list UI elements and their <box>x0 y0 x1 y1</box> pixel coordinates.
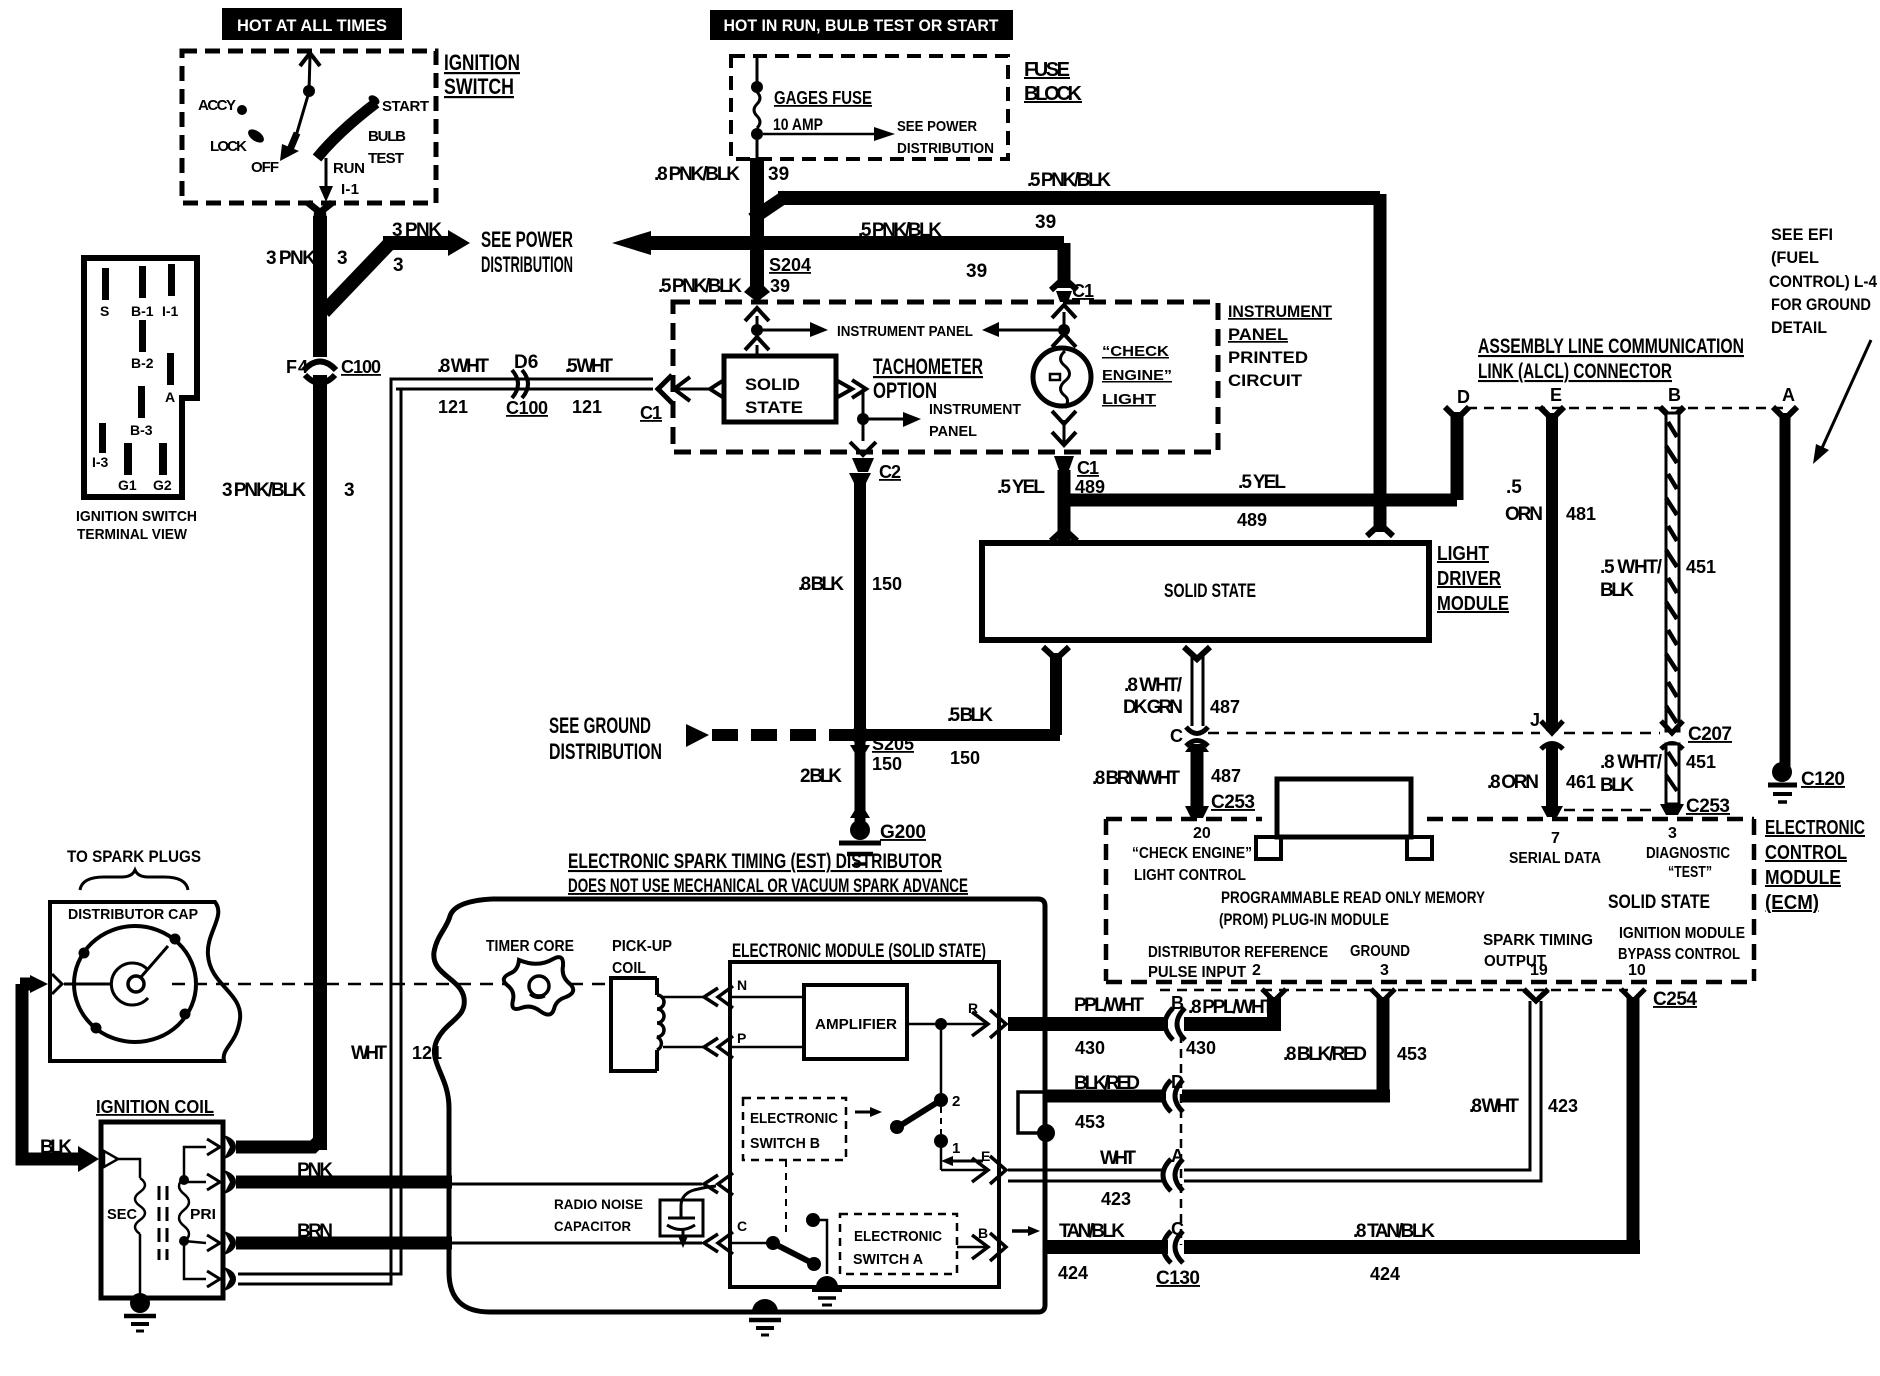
svg-text:TEST: TEST <box>368 150 404 167</box>
svg-text:39: 39 <box>966 261 987 282</box>
svg-text:.8 WHT/: .8 WHT/ <box>1600 752 1663 773</box>
svg-text:LIGHT: LIGHT <box>1102 391 1156 408</box>
label PROGRAMMABLE READ ONLY MEMORY (PROM) PLUG-IN MODULE <box>1219 888 1486 929</box>
svg-text:CONTROL: CONTROL <box>1765 842 1847 864</box>
svg-text:C130: C130 <box>1156 1268 1200 1289</box>
ECM dashed box <box>1106 819 1754 982</box>
svg-text:R: R <box>968 1000 978 1016</box>
svg-text:SWITCH B: SWITCH B <box>750 1135 820 1152</box>
wire WHT 121 hollow from tach to coil terminal 4 <box>238 379 652 1284</box>
wire amplifier to R output <box>907 1000 1006 1038</box>
svg-text:2: 2 <box>952 1093 960 1110</box>
connector D6 C100 <box>512 370 530 398</box>
svg-text:“CHECK: “CHECK <box>1102 343 1169 360</box>
coil terminal 2 <box>207 1170 236 1194</box>
label SEE GROUND DISTRIBUTION <box>549 713 662 764</box>
svg-text:.8 PNK/BLK: .8 PNK/BLK <box>654 164 740 185</box>
svg-text:IGNITION COIL: IGNITION COIL <box>96 1097 214 1117</box>
svg-text:DISTRIBUTOR REFERENCE: DISTRIBUTOR REFERENCE <box>1148 944 1328 961</box>
ground on housing bottom <box>749 1299 781 1335</box>
header HOT IN RUN BULB TEST OR START <box>710 10 1013 40</box>
dashed rotor axis line <box>172 983 508 986</box>
svg-text:10: 10 <box>1628 962 1646 979</box>
pin 2 connector <box>1262 989 1286 1001</box>
svg-text:B: B <box>1171 993 1184 1013</box>
check engine light bulb <box>1033 305 1091 470</box>
label RADIO NOISE CAPACITOR <box>554 1196 643 1234</box>
dashed link switch B to switch A <box>785 1160 787 1236</box>
wire PPL/WHT 430 distributor reference <box>1008 997 1281 1031</box>
svg-text:.5 PNK/BLK: .5 PNK/BLK <box>858 220 942 241</box>
ignition switch contacts and lever <box>198 53 429 202</box>
svg-text:424: 424 <box>1370 1264 1400 1284</box>
svg-text:AMPLIFIER: AMPLIFIER <box>815 1016 897 1033</box>
svg-text:FUSE: FUSE <box>1024 59 1070 81</box>
connector C at C207 row <box>1186 727 1208 746</box>
svg-text:IGNITION SWITCH: IGNITION SWITCH <box>76 508 197 525</box>
svg-text:SERIAL DATA: SERIAL DATA <box>1509 850 1601 867</box>
svg-text:39: 39 <box>768 164 789 185</box>
svg-text:INSTRUMENT PANEL: INSTRUMENT PANEL <box>837 323 973 340</box>
ignition switch terminal view connector body <box>84 258 197 497</box>
svg-text:.5 YEL: .5 YEL <box>997 477 1045 498</box>
svg-text:LOCK: LOCK <box>210 138 247 155</box>
svg-text:CONTROL) L-4: CONTROL) L-4 <box>1769 272 1877 291</box>
svg-text:OPTION: OPTION <box>873 378 937 403</box>
svg-text:OFF: OFF <box>251 159 279 176</box>
wire .8 PNK/BLK from fuse block down <box>744 140 770 302</box>
svg-text:ASSEMBLY LINE COMMUNICATION: ASSEMBLY LINE COMMUNICATION <box>1478 335 1744 358</box>
pin 19 connector <box>1524 989 1548 1001</box>
tachometer solid state box <box>724 356 836 422</box>
svg-text:TO SPARK PLUGS: TO SPARK PLUGS <box>67 847 201 866</box>
svg-text:PULSE INPUT: PULSE INPUT <box>1148 964 1246 981</box>
note SEE EFI FUEL CONTROL L-4 FOR GROUND DETAIL <box>1769 225 1877 464</box>
svg-text:487: 487 <box>1210 697 1240 717</box>
label IGNITION SWITCH TERMINAL VIEW <box>76 508 197 543</box>
wire .5 PNK/BLK lower branch to instrument panel <box>648 243 1077 302</box>
wire .5 WHT/BLK hatched from ALCL B <box>1666 413 1679 731</box>
wire .5 PNK/BLK upper branch to ECM side <box>752 194 1393 536</box>
svg-text:C253: C253 <box>1211 792 1255 813</box>
svg-text:(FUEL: (FUEL <box>1771 248 1819 267</box>
svg-text:STATE: STATE <box>745 398 803 417</box>
switch lever wire <box>296 92 309 136</box>
connector at cap left for BLK wire <box>52 974 62 994</box>
svg-text:150: 150 <box>872 754 902 774</box>
EST distributor housing outline <box>434 899 1045 1312</box>
svg-text:INSTRUMENT: INSTRUMENT <box>1228 302 1333 321</box>
svg-text:461: 461 <box>1566 772 1596 792</box>
svg-text:G1: G1 <box>118 477 137 493</box>
svg-text:PRI: PRI <box>190 1206 216 1223</box>
connector into tachometer solid state <box>745 337 769 357</box>
svg-text:C120: C120 <box>1801 769 1845 790</box>
svg-text:I-1: I-1 <box>341 181 359 198</box>
svg-text:TAN/BLK: TAN/BLK <box>1059 1221 1125 1242</box>
svg-text:.8 PPL/WHT: .8 PPL/WHT <box>1188 997 1274 1018</box>
svg-text:S: S <box>100 303 109 319</box>
label INSTRUMENT PANEL second <box>929 401 1021 440</box>
svg-text:.8 BRN/WHT: .8 BRN/WHT <box>1092 768 1180 789</box>
wire stub from BLK/RED to distributor housing ground <box>1018 1092 1055 1142</box>
svg-text:430: 430 <box>1075 1038 1105 1058</box>
svg-text:ELECTRONIC SPARK TIMING (EST): ELECTRONIC SPARK TIMING (EST) DISTRIBUTO… <box>568 850 942 873</box>
svg-text:C100: C100 <box>341 357 381 377</box>
svg-text:F4: F4 <box>286 357 308 377</box>
wire .5 BLK from module ground down to S205 <box>860 647 1069 735</box>
svg-text:SEE GROUND: SEE GROUND <box>549 713 651 738</box>
svg-text:PRINTED: PRINTED <box>1228 348 1308 367</box>
pin 10 connector <box>1621 989 1645 1001</box>
electronic switch B contacts <box>890 1024 986 1170</box>
coil internals <box>107 1147 216 1296</box>
svg-text:BLOCK: BLOCK <box>1024 83 1083 105</box>
wire tach to C1 left <box>658 375 724 403</box>
connector C130 D <box>1163 1080 1183 1112</box>
svg-text:G200: G200 <box>880 822 926 843</box>
svg-text:INSTRUMENT: INSTRUMENT <box>929 401 1021 418</box>
svg-text:ACCY: ACCY <box>198 97 236 114</box>
svg-text:TIMER CORE: TIMER CORE <box>486 938 574 955</box>
svg-text:BLK/RED: BLK/RED <box>1074 1073 1140 1094</box>
svg-text:ELECTRONIC: ELECTRONIC <box>1765 817 1865 839</box>
svg-text:3: 3 <box>1380 962 1389 979</box>
wire S205 to G200 <box>850 741 870 822</box>
svg-text:TACHOMETER: TACHOMETER <box>873 354 983 379</box>
svg-text:.5 WHT/: .5 WHT/ <box>1600 557 1663 578</box>
svg-text:SEC: SEC <box>107 1206 137 1223</box>
wire .8 BLK from C2 down to S205 <box>849 473 871 735</box>
wire from coil terminal 1 up to ignition switch wire <box>236 1140 320 1147</box>
svg-text:I-3: I-3 <box>92 454 109 470</box>
svg-text:150: 150 <box>950 748 980 768</box>
bulb test arc <box>317 103 376 158</box>
svg-text:.5 WHT: .5 WHT <box>565 356 613 377</box>
svg-text:PANEL: PANEL <box>1228 325 1288 344</box>
ALCL dashed pin line <box>1467 407 1784 410</box>
wire to SEE GROUND DISTRIBUTION dashed heavy <box>686 724 854 747</box>
module input C and switch A lever <box>704 1213 827 1274</box>
arrow direction on TAN/BLK <box>1012 1226 1040 1236</box>
svg-text:DIAGNOSTIC: DIAGNOSTIC <box>1646 845 1730 862</box>
coil terminal 1 <box>207 1135 236 1159</box>
svg-text:3 PNK: 3 PNK <box>266 248 316 269</box>
svg-text:IGNITION: IGNITION <box>444 50 520 75</box>
wire .5 ORN from ALCL E <box>1546 413 1558 731</box>
module output B <box>957 1225 1006 1261</box>
svg-text:.8 TAN/BLK: .8 TAN/BLK <box>1353 1221 1435 1242</box>
label SEE POWER DISTRIBUTION left <box>481 227 573 277</box>
ECM pin 7 SERIAL DATA <box>1509 830 1601 867</box>
svg-text:J: J <box>1530 710 1540 730</box>
svg-text:453: 453 <box>1075 1112 1105 1132</box>
svg-text:G2: G2 <box>153 477 172 493</box>
connector row C254 dashed <box>1160 989 1628 992</box>
svg-text:DISTRIBUTOR CAP: DISTRIBUTOR CAP <box>68 906 198 923</box>
svg-text:D: D <box>1457 387 1470 407</box>
svg-text:SOLID: SOLID <box>745 375 800 394</box>
svg-text:HOT AT ALL TIMES: HOT AT ALL TIMES <box>237 16 387 35</box>
svg-text:BRN: BRN <box>297 1221 333 1242</box>
svg-text:10 AMP: 10 AMP <box>773 115 823 134</box>
electronic switch A dashed box <box>840 1214 957 1274</box>
svg-text:SEE POWER: SEE POWER <box>897 118 977 135</box>
svg-text:C253: C253 <box>1686 796 1730 817</box>
svg-text:19: 19 <box>1530 962 1548 979</box>
svg-text:D6: D6 <box>514 352 538 373</box>
svg-text:SEE POWER: SEE POWER <box>481 227 573 252</box>
svg-text:C: C <box>1170 726 1183 746</box>
ignition coil box <box>101 1122 223 1298</box>
svg-text:C1: C1 <box>640 403 662 423</box>
svg-text:DISTRIBUTION: DISTRIBUTION <box>549 739 662 764</box>
svg-text:LINK (ALCL) CONNECTOR: LINK (ALCL) CONNECTOR <box>1478 360 1672 383</box>
pick-up coil <box>611 978 706 1071</box>
svg-text:B-1: B-1 <box>131 303 154 319</box>
ground C120 <box>1768 762 1797 802</box>
svg-text:ELECTRONIC MODULE (SOLID STATE: ELECTRONIC MODULE (SOLID STATE) <box>732 941 986 962</box>
svg-text:FOR GROUND: FOR GROUND <box>1771 295 1871 314</box>
svg-text:.5 YEL: .5 YEL <box>1238 472 1286 493</box>
svg-text:SWITCH: SWITCH <box>444 74 514 99</box>
svg-text:.5 PNK/BLK: .5 PNK/BLK <box>1027 170 1111 191</box>
svg-text:PNK: PNK <box>297 1160 333 1181</box>
svg-text:PROGRAMMABLE READ ONLY MEMORY: PROGRAMMABLE READ ONLY MEMORY <box>1221 888 1486 907</box>
svg-text:C2: C2 <box>879 462 901 482</box>
svg-text:C254: C254 <box>1653 989 1697 1010</box>
svg-text:.5 BLK: .5 BLK <box>947 705 993 726</box>
svg-text:SPARK TIMING: SPARK TIMING <box>1483 932 1593 949</box>
svg-text:“CHECK ENGINE”: “CHECK ENGINE” <box>1132 845 1252 862</box>
svg-text:DOES NOT USE MECHANICAL OR VAC: DOES NOT USE MECHANICAL OR VACUUM SPARK … <box>568 876 968 897</box>
svg-text:2 BLK: 2 BLK <box>800 766 842 787</box>
fuse block dashed box <box>731 56 1008 159</box>
svg-text:.8 BLK/RED: .8 BLK/RED <box>1283 1044 1367 1065</box>
svg-text:GAGES FUSE: GAGES FUSE <box>774 88 872 108</box>
radio noise capacitor <box>660 1186 716 1248</box>
svg-text:ENGINE”: ENGINE” <box>1102 367 1172 384</box>
svg-text:BYPASS CONTROL: BYPASS CONTROL <box>1618 946 1740 963</box>
svg-text:COIL: COIL <box>612 960 646 977</box>
label ELECTRONIC CONTROL MODULE (ECM) <box>1765 817 1865 914</box>
svg-text:C100: C100 <box>506 398 548 418</box>
module input P <box>704 1030 804 1058</box>
svg-text:2: 2 <box>1252 962 1261 979</box>
svg-text:BULB: BULB <box>368 128 406 145</box>
svg-text:GROUND: GROUND <box>1350 943 1410 960</box>
svg-text:B: B <box>978 1225 988 1241</box>
wire BLK/RED 453 ground loop <box>1046 997 1390 1102</box>
arrow from right pointing left to SEE POWER DISTRIBUTION <box>612 231 651 255</box>
connector F4 C100 on main wire <box>304 357 336 383</box>
label IGNITION SWITCH <box>444 50 520 99</box>
svg-text:B-2: B-2 <box>131 355 154 371</box>
svg-text:424: 424 <box>1058 1263 1088 1283</box>
svg-text:423: 423 <box>1101 1189 1131 1209</box>
svg-text:.8 ORN: .8 ORN <box>1487 772 1539 793</box>
ground G200 <box>839 820 881 864</box>
header HOT AT ALL TIMES <box>222 8 402 40</box>
ignition switch dashed box <box>182 51 436 203</box>
svg-text:DRIVER: DRIVER <box>1437 568 1501 590</box>
svg-text:C1: C1 <box>1072 281 1094 301</box>
svg-text:SOLID STATE: SOLID STATE <box>1608 892 1710 913</box>
svg-text:S205: S205 <box>872 734 914 754</box>
wire .8 ORN to C253 <box>1541 746 1563 817</box>
svg-text:.8 WHT: .8 WHT <box>437 356 489 377</box>
wire .8 WHT/DK GRN hollow from module output <box>1184 647 1210 726</box>
distributor cap box <box>50 902 240 1061</box>
svg-text:PPL/WHT: PPL/WHT <box>1074 995 1144 1016</box>
wire TAN/BLK 424 bypass <box>1046 997 1640 1254</box>
label CHECK ENGINE LIGHT <box>1102 343 1172 408</box>
svg-text:1: 1 <box>952 1140 960 1157</box>
wire .8 WHT / .5 WHT hollow horizontal <box>396 379 653 389</box>
svg-text:B: B <box>1668 385 1681 405</box>
label ELECTRONIC SPARK TIMING (EST) DISTRIBUTOR <box>568 850 968 897</box>
svg-text:C207: C207 <box>1688 724 1732 745</box>
svg-text:SOLID STATE: SOLID STATE <box>1164 581 1256 602</box>
svg-text:423: 423 <box>1548 1096 1578 1116</box>
svg-text:121: 121 <box>572 397 602 417</box>
label INSTRUMENT PANEL PRINTED CIRCUIT <box>1228 302 1333 390</box>
module input N <box>704 977 804 1008</box>
ALCL pin B connector <box>1660 407 1684 419</box>
wire C2 exit <box>850 419 876 472</box>
ECM pin row labels <box>1148 925 1745 981</box>
node instrument panel feed left <box>745 308 828 337</box>
svg-text:P: P <box>737 1030 746 1046</box>
ground below coil <box>124 1293 156 1331</box>
ALCL pin E connector <box>1540 407 1564 419</box>
svg-text:S204: S204 <box>769 255 811 275</box>
ground inside module <box>812 1276 842 1305</box>
svg-text:WHT: WHT <box>1100 1148 1136 1169</box>
svg-text:ELECTRONIC: ELECTRONIC <box>854 1228 942 1245</box>
connector C207 on WHT/BLK wire <box>1661 721 1683 749</box>
PROM plug-in module <box>1256 779 1432 859</box>
svg-text:20: 20 <box>1193 825 1211 842</box>
svg-text:.8 BLK: .8 BLK <box>798 574 844 595</box>
electronic module box <box>730 962 999 1287</box>
timer core symbol <box>504 957 573 1014</box>
svg-text:39: 39 <box>770 276 790 296</box>
svg-text:489: 489 <box>1237 510 1267 530</box>
svg-text:DETAIL: DETAIL <box>1771 318 1827 337</box>
connector C130 C <box>1163 1231 1183 1263</box>
wire BRN from coil to module C input <box>236 1237 702 1250</box>
svg-text:LIGHT: LIGHT <box>1437 543 1489 565</box>
svg-text:RUN: RUN <box>333 160 365 177</box>
svg-text:3 PNK/BLK: 3 PNK/BLK <box>222 480 306 501</box>
svg-text:7: 7 <box>1551 830 1560 847</box>
svg-text:A: A <box>165 389 175 405</box>
svg-text:N: N <box>737 977 747 993</box>
svg-text:451: 451 <box>1686 557 1716 577</box>
dashed C130 connector line <box>1180 1034 1183 1245</box>
wire BLK from cap to ignition coil <box>20 975 99 1172</box>
svg-text:A: A <box>1782 385 1795 405</box>
wire 3 PNK branch to power distribution <box>324 230 470 312</box>
ALCL pin A connector <box>1773 407 1797 419</box>
run contact wire <box>325 158 328 190</box>
svg-text:START: START <box>382 98 429 115</box>
svg-text:DISTRIBUTION: DISTRIBUTION <box>481 252 573 277</box>
svg-text:BLK: BLK <box>1600 775 1634 796</box>
connector C130 B <box>1165 1008 1185 1040</box>
wire .8 WHT/BLK hatched to C253 <box>1660 744 1684 815</box>
svg-text:ORN: ORN <box>1505 504 1543 525</box>
wire to check engine feed <box>982 322 1070 337</box>
svg-text:WHT: WHT <box>351 1043 387 1064</box>
svg-text:CAPACITOR: CAPACITOR <box>554 1218 631 1234</box>
svg-text:BLK: BLK <box>40 1137 72 1158</box>
label PICK-UP COIL <box>612 938 672 977</box>
svg-text:MODULE: MODULE <box>1765 867 1841 889</box>
wire tach right to instrument panel <box>836 380 921 427</box>
wire .5 YEL from C1 to ALCL D and light driver module <box>1051 407 1469 541</box>
svg-text:487: 487 <box>1211 766 1241 786</box>
wire WHT 423 spark timing output hollow <box>1008 990 1548 1181</box>
connector J on ORN wire <box>1541 721 1563 749</box>
splice S205 <box>851 726 869 744</box>
svg-text:DK GRN: DK GRN <box>1123 697 1183 718</box>
electronic switch B dashed box <box>743 1098 882 1160</box>
svg-text:BLK: BLK <box>1600 580 1634 601</box>
ECM pin 20 CHECK ENGINE LIGHT CONTROL <box>1132 825 1252 884</box>
coil terminal 4 <box>207 1267 236 1291</box>
light driver module box <box>982 543 1429 640</box>
ECM pin 3 DIAGNOSTIC TEST <box>1646 825 1730 881</box>
distributor cap circle and rotor <box>64 926 196 1042</box>
svg-text:SWITCH A: SWITCH A <box>853 1251 923 1268</box>
svg-text:453: 453 <box>1397 1044 1427 1064</box>
gages fuse symbol <box>751 58 763 140</box>
svg-text:RADIO NOISE: RADIO NOISE <box>554 1196 643 1212</box>
wire .8 BRN/WHT to C253 <box>1185 744 1209 818</box>
wire 3 PNK/BLK main vertical from ignition switch <box>304 200 336 1150</box>
svg-text:E: E <box>1550 385 1562 405</box>
svg-text:.5: .5 <box>1506 477 1522 498</box>
coil terminal 3 <box>207 1231 236 1255</box>
svg-text:CIRCUIT: CIRCUIT <box>1228 371 1303 390</box>
connector C130 A <box>1163 1159 1183 1191</box>
svg-text:3 PNK: 3 PNK <box>392 220 442 241</box>
label LIGHT DRIVER MODULE <box>1437 543 1509 615</box>
coil BLK terminal <box>104 1151 118 1167</box>
svg-text:451: 451 <box>1686 752 1716 772</box>
svg-text:TERMINAL VIEW: TERMINAL VIEW <box>77 526 188 543</box>
label TACHOMETER OPTION <box>873 354 983 403</box>
svg-text:121: 121 <box>438 397 468 417</box>
wire PNK from coil to module <box>236 1173 733 1195</box>
svg-text:LIGHT CONTROL: LIGHT CONTROL <box>1134 867 1246 884</box>
wire from fuse to see power distribution <box>763 127 895 141</box>
dashed row at C253 <box>1564 809 1656 812</box>
svg-text:.8 WHT: .8 WHT <box>1469 1096 1519 1117</box>
svg-text:39: 39 <box>1035 212 1056 233</box>
ALCL connector labels <box>1478 335 1744 383</box>
svg-text:3: 3 <box>344 480 355 501</box>
svg-text:SEE EFI: SEE EFI <box>1771 225 1833 244</box>
svg-text:(PROM) PLUG-IN MODULE: (PROM) PLUG-IN MODULE <box>1219 910 1389 929</box>
svg-text:121: 121 <box>412 1043 442 1063</box>
svg-text:MODULE: MODULE <box>1437 593 1509 615</box>
svg-text:3: 3 <box>337 248 348 269</box>
wire from ALCL A to ground C120 <box>1780 413 1791 766</box>
label SEE POWER DISTRIBUTION in fuse block <box>897 118 994 157</box>
